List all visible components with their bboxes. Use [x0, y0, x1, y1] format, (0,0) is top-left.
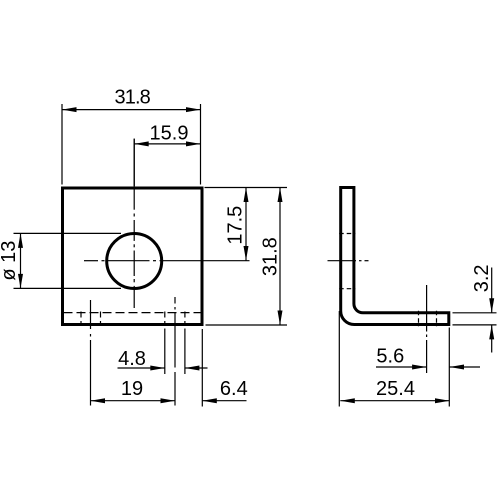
hole centerline side — [328, 260, 369, 262]
bracket L profile — [341, 188, 449, 325]
dim 31.8 right — [279, 188, 281, 326]
dim 17.5 right — [245, 188, 247, 261]
dim 3.2 — [453, 268, 497, 353]
svg-text:31.8: 31.8 — [114, 87, 150, 109]
hidden bend line (dashed) — [64, 312, 201, 314]
right extension lines — [205, 188, 288, 326]
dim 25.4 — [339, 311, 449, 407]
centerline small left hole — [90, 300, 92, 406]
dim 4.8 — [118, 367, 208, 369]
hidden hole edges in bottom leg — [418, 311, 420, 327]
bottom extension lines left view — [165, 329, 203, 407]
horizontal centerline of big hole — [84, 260, 250, 262]
dim 19 — [91, 400, 176, 402]
hole circle ø13 — [107, 234, 162, 289]
svg-text:ø 13: ø 13 — [0, 241, 20, 281]
svg-text:17.5: 17.5 — [224, 206, 246, 245]
hidden hole edges in vertical leg — [339, 233, 355, 235]
dim ø13 left — [14, 233, 122, 288]
svg-text:3.2: 3.2 — [471, 264, 493, 292]
dim 6.4 — [202, 400, 246, 402]
dim 31.8 top — [62, 104, 201, 185]
bottom hole centerline — [426, 285, 428, 373]
hidden hole edges left hole — [80, 312, 82, 326]
svg-text:15.9: 15.9 — [150, 122, 189, 144]
svg-text:5.6: 5.6 — [376, 346, 404, 368]
svg-text:19: 19 — [121, 378, 143, 400]
svg-text:6.4: 6.4 — [220, 378, 248, 400]
hidden hole edges right hole — [164, 312, 166, 326]
dim 5.6 — [376, 366, 480, 368]
plate outline — [63, 188, 203, 325]
svg-text:4.8: 4.8 — [118, 348, 146, 370]
svg-text:25.4: 25.4 — [376, 378, 415, 400]
centerline small right hole — [174, 297, 176, 406]
vertical centerline of big hole — [133, 139, 135, 309]
svg-text:31.8: 31.8 — [260, 237, 282, 276]
dim 15.9 top — [134, 139, 200, 186]
